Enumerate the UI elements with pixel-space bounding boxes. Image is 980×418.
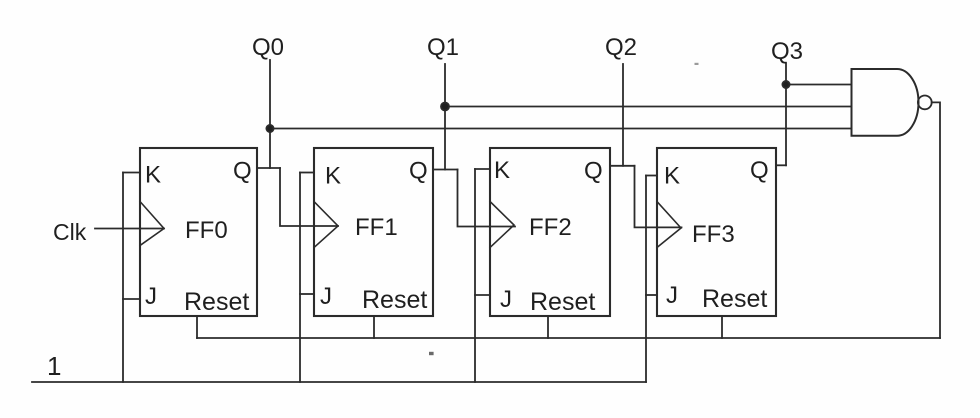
clock triangle FF1 xyxy=(314,202,338,248)
wire NAND output xyxy=(932,102,940,338)
svg-text:Reset: Reset xyxy=(702,285,767,313)
wire Q0 riser to label xyxy=(269,60,271,168)
clock triangle FF2 xyxy=(490,202,514,248)
svg-text:FF0: FF0 xyxy=(185,217,228,244)
wire K/J tie vertical FF1 xyxy=(299,173,301,383)
wire Reset stub FF3 xyxy=(721,316,723,338)
svg-text:Q3: Q3 xyxy=(771,38,803,65)
wire J stub FF1 xyxy=(300,293,314,295)
wire Q3 riser to label xyxy=(785,63,787,165)
svg-text:K: K xyxy=(325,163,341,190)
wire bus Q1 to NAND input xyxy=(445,106,852,108)
stray mark right of Q2 xyxy=(695,63,699,65)
wire Q1 riser to label xyxy=(444,64,446,170)
wire Q output stub FF3 xyxy=(776,164,786,166)
svg-text:J: J xyxy=(500,286,512,313)
flip-flop FF0 body xyxy=(140,148,257,316)
svg-text:Q0: Q0 xyxy=(252,34,284,61)
junction node Q0 on bus xyxy=(266,125,273,132)
junction node Q1 on bus xyxy=(441,103,449,111)
flip-flop FF3 body xyxy=(657,148,776,316)
clock triangle FF0 xyxy=(140,202,164,246)
wire Q output stub FF0 xyxy=(257,167,280,169)
wire logic-1 bottom rail xyxy=(32,381,646,383)
wire FF1-Q down to FF2 clock xyxy=(458,170,516,227)
wire bus Q3 to NAND input xyxy=(786,84,852,86)
wire Q2 riser to label xyxy=(622,64,624,166)
NAND gate U1 body xyxy=(852,69,919,136)
NAND gate U1 inversion bubble xyxy=(918,96,932,110)
svg-text:Q: Q xyxy=(409,158,428,185)
svg-text:J: J xyxy=(145,283,157,310)
wire K/J tie vertical FF2 xyxy=(474,169,476,382)
wire J stub FF0 xyxy=(123,298,140,300)
svg-text:K: K xyxy=(145,162,161,189)
wire K stub FF0 xyxy=(123,172,140,174)
clock triangle FF3 xyxy=(657,202,681,248)
svg-text:Q1: Q1 xyxy=(427,34,459,61)
wire K/J tie vertical FF0 xyxy=(122,173,124,383)
wire K stub FF1 xyxy=(300,172,314,174)
wire J stub FF3 xyxy=(646,294,657,296)
svg-text:Reset: Reset xyxy=(184,288,249,316)
svg-text:Clk: Clk xyxy=(53,219,87,245)
svg-text:Q: Q xyxy=(750,157,769,184)
wire bus Q0 to NAND input xyxy=(270,128,852,130)
wire FF2-Q down to FF3 clock xyxy=(635,166,682,228)
svg-text:Q: Q xyxy=(233,158,252,185)
wire FF0-Q down to FF1 clock xyxy=(280,168,338,226)
wire Q output stub FF1 xyxy=(433,169,458,171)
svg-text:Reset: Reset xyxy=(530,288,595,316)
svg-text:FF1: FF1 xyxy=(355,214,398,241)
wire K stub FF2 xyxy=(475,168,490,170)
svg-text:J: J xyxy=(320,283,332,310)
wire Reset stub FF0 xyxy=(196,316,198,338)
flip-flop FF1 body xyxy=(314,148,433,316)
svg-text:1: 1 xyxy=(47,351,61,381)
stray mark near bottom centre xyxy=(429,352,434,355)
wire Reset stub FF1 xyxy=(373,316,375,338)
flip-flop FF2 body xyxy=(490,148,610,316)
svg-text:FF3: FF3 xyxy=(692,221,735,248)
wire reset feedback rail xyxy=(197,337,940,339)
svg-text:J: J xyxy=(666,282,678,309)
svg-text:K: K xyxy=(664,163,680,190)
wire K stub FF3 xyxy=(646,175,657,177)
wire Q output stub FF2 xyxy=(610,165,635,167)
wire Reset stub FF2 xyxy=(547,316,549,338)
wire J stub FF2 xyxy=(475,294,490,296)
svg-text:Q2: Q2 xyxy=(605,34,637,61)
wire K/J tie vertical FF3 xyxy=(645,176,647,383)
svg-text:Q: Q xyxy=(584,158,603,185)
svg-text:K: K xyxy=(494,157,510,184)
wire Clk input to FF0 clock xyxy=(95,228,164,230)
svg-text:Reset: Reset xyxy=(362,286,427,314)
junction node Q3 on bus xyxy=(782,81,789,88)
svg-text:FF2: FF2 xyxy=(529,214,572,241)
